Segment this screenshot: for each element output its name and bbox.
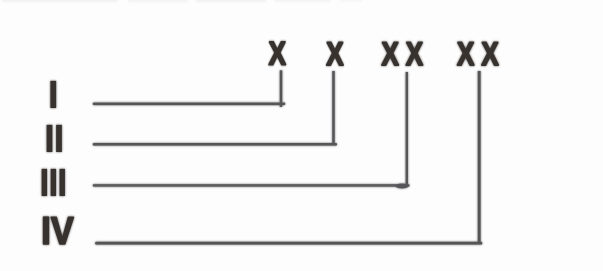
leader line III: horizontal from numeral III [94,72,409,189]
leader line I: horizontal from numeral I [94,70,284,107]
numeral III [40,162,67,204]
label XX (column 4) [457,37,499,72]
svg-text:I: I [48,73,58,116]
numeral II [45,117,64,160]
numeral I [48,73,58,116]
svg-text:X: X [481,37,499,72]
riser to column 1 [280,70,283,107]
label XX (column 3) [382,37,424,72]
riser to column 3 [406,72,408,186]
label X (column 1) [269,37,287,72]
leader line IV: horizontal from numeral IV [97,71,481,244]
numeral IV [41,209,74,253]
svg-text:X: X [269,37,287,72]
riser to column 2 [332,71,335,145]
corner blob [396,184,409,189]
svg-text:IV: IV [41,209,74,253]
svg-text:X: X [457,37,475,72]
top scan artifact strip [2,0,362,2]
svg-text:II: II [45,117,64,160]
label X (column 2) [326,37,344,72]
svg-text:X: X [382,37,400,72]
svg-text:X: X [406,37,424,72]
svg-text:X: X [326,37,344,72]
riser to column 4 [478,71,481,244]
leader line II: horizontal from numeral II [94,71,336,145]
svg-text:III: III [40,162,67,204]
